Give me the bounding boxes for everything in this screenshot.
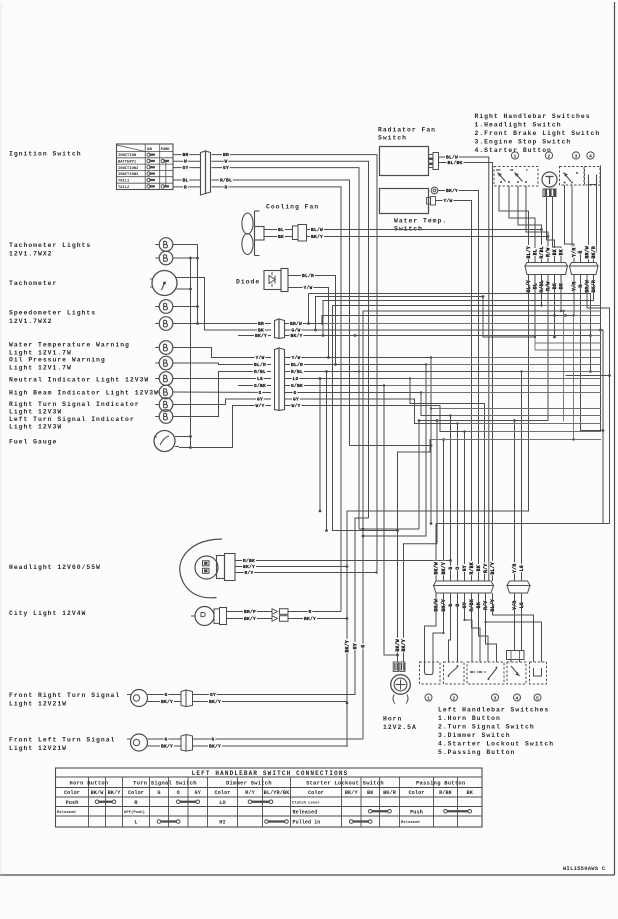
- svg-text:Y/W: Y/W: [443, 198, 452, 204]
- wire labels above connector J8: [571, 245, 597, 259]
- connector J4 (cooling fan): [293, 225, 307, 242]
- bulb L3 speedometer light 1: [155, 300, 173, 314]
- label High Beam Indicator Light: [9, 390, 159, 397]
- wire GY jog (harness): [359, 419, 420, 529]
- connector J3 (water temp switch): [427, 197, 436, 206]
- svg-text:3: 3: [494, 695, 497, 701]
- wire labels 8-pin left: [253, 354, 267, 409]
- svg-text:ON: ON: [510, 169, 514, 172]
- label Left Turn Signal Indicator Light: [9, 416, 135, 431]
- svg-text:BK: BK: [467, 790, 474, 796]
- wire tachometer BK: [180, 278, 271, 331]
- wire row ext y378.5 LG: [410, 378, 601, 380]
- connector J8 (right handlebar 4-pin): [570, 263, 599, 275]
- label Ignition Switch: [9, 151, 82, 158]
- svg-text:Left Turn Signal Indicator: Left Turn Signal Indicator: [9, 416, 135, 423]
- svg-text:R/W: R/W: [546, 248, 552, 257]
- wire labels 3-pin left: [254, 320, 268, 339]
- svg-text:GY: GY: [293, 396, 299, 402]
- connector J13 (starter lockout): [507, 651, 525, 660]
- wire riser x320: [319, 377, 322, 512]
- radiator fan switch SW2: [380, 147, 429, 176]
- wire O (to turn signal switch): [457, 593, 459, 662]
- wire high beam bulb G: [173, 391, 271, 394]
- svg-text:BL/Y: BL/Y: [526, 246, 532, 258]
- wire G/W (3-pin row2): [285, 327, 604, 524]
- connector J9 (right turn signal): [181, 690, 193, 707]
- wire BK/Y (left turn run): [193, 743, 348, 750]
- svg-text:Dimmer Switch: Dimmer Switch: [226, 781, 272, 787]
- wire BK/R (starter run 2): [322, 275, 594, 337]
- wire R/Y (headlight low): [235, 569, 378, 576]
- svg-text:R/Y: R/Y: [245, 790, 255, 796]
- starter lockout switch SW11 (dashed box): [507, 662, 526, 684]
- dimmer switch SW10 (dashed box): [467, 662, 504, 684]
- wire R (main harness right): [581, 275, 605, 432]
- svg-text:2: 2: [548, 153, 551, 159]
- wire row ext y415.5: [449, 414, 601, 416]
- bulb L9 right turn indicator light: [155, 398, 173, 412]
- svg-text:BK/W: BK/W: [91, 790, 105, 796]
- svg-text:BK: BK: [559, 283, 565, 289]
- label Diode: [236, 279, 260, 286]
- water temperature switch SW3: [380, 189, 429, 214]
- wire tach light 2 to bus: [173, 257, 198, 259]
- svg-text:IGNITION: IGNITION: [118, 154, 136, 158]
- diode D1: [264, 269, 288, 292]
- horn button SW8 (dashed box): [420, 662, 441, 684]
- wire label horn BK/W: [395, 638, 401, 653]
- wire R/BL (ignition harness): [212, 177, 350, 446]
- wire row y343: [534, 336, 601, 343]
- svg-text:2.Front Brake Light Switch: 2.Front Brake Light Switch: [475, 130, 601, 137]
- svg-text:R/Y: R/Y: [483, 564, 489, 573]
- label Water Temperature Warning Light: [9, 342, 130, 357]
- svg-text:Headlight 12V60/55W: Headlight 12V60/55W: [9, 564, 101, 571]
- svg-text:Y/W: Y/W: [255, 355, 264, 361]
- svg-text:4.Starter Lockout Switch: 4.Starter Lockout Switch: [438, 741, 554, 748]
- wire right turn bulb GY: [173, 399, 271, 405]
- wire Y/R (stop run): [573, 275, 575, 316]
- svg-text:GY: GY: [223, 165, 229, 171]
- bulb L7 neutral indicator light: [155, 372, 173, 386]
- wire riser x419: [418, 421, 420, 530]
- svg-text:BR/W: BR/W: [585, 246, 591, 258]
- wire lockout pin1: [510, 660, 512, 663]
- wire speedo light 2 to 3-pin row BR: [173, 323, 271, 325]
- svg-text:City Light 12V4W: City Light 12V4W: [9, 610, 86, 617]
- horn H1: [391, 662, 411, 704]
- wire row ext y423.5: [456, 422, 601, 424]
- headlight E1: [180, 539, 235, 598]
- wire R/BL (8-pin row3): [285, 368, 522, 581]
- wire horn drop BK/Y: [404, 544, 438, 662]
- wire Y/W (water temp switch): [436, 197, 472, 581]
- wire BL/R (diode): [288, 272, 337, 366]
- wire BK/Y (right turn): [152, 698, 181, 705]
- svg-text:BK/R: BK/R: [383, 790, 397, 796]
- svg-text:Turn Signal Switch: Turn Signal Switch: [133, 781, 197, 787]
- svg-text:BK: BK: [552, 249, 558, 255]
- svg-text:BK/Y: BK/Y: [290, 333, 302, 339]
- wire row ext y311: [560, 310, 601, 312]
- wire R/W (headlight switch): [526, 186, 548, 263]
- wire row ext y315.5: [572, 314, 601, 316]
- svg-text:Speedometer Lights: Speedometer Lights: [9, 310, 96, 317]
- wire G (left turn): [152, 736, 181, 743]
- svg-text:Released: Released: [57, 810, 76, 815]
- wire row ext y357.5 Y/W: [430, 356, 601, 358]
- connector J11 (left handlebar 9-pin): [434, 581, 494, 593]
- label Front Right Turn Signal: [9, 692, 120, 708]
- front left turn signal E4: [127, 734, 152, 751]
- connector J6 (meter 8-pin): [275, 348, 285, 411]
- wire BL (cooling fan): [264, 226, 293, 233]
- label Fuel Gauge: [9, 439, 57, 446]
- wire tach light 1 to bus: [173, 244, 198, 246]
- svg-text:BK/R: BK/R: [591, 246, 597, 258]
- wire GY (to turn signal switch): [463, 593, 472, 662]
- svg-text:Front Right Turn Signal: Front Right Turn Signal: [9, 692, 120, 699]
- wire GY (ignition harness): [212, 164, 360, 529]
- svg-text:IGNITION2: IGNITION2: [118, 167, 138, 171]
- headlight switch SW4 (dashed box): [494, 167, 538, 187]
- svg-text:Fuel Gauge: Fuel Gauge: [9, 439, 57, 446]
- label Speedometer Lights: [9, 310, 96, 326]
- wire BL/Y (headlight switch): [499, 186, 529, 263]
- wire horn feed BK/W: [398, 438, 445, 662]
- wire BK (brake switch 2): [553, 197, 562, 264]
- svg-text:Push: Push: [410, 809, 423, 815]
- wire row ext y439.5: [430, 439, 601, 441]
- city light E2: [191, 607, 227, 626]
- wire label horn BK/Y: [401, 638, 407, 653]
- svg-text:High Beam Indicator Light 12V3: High Beam Indicator Light 12V3W: [9, 390, 159, 397]
- connector J12 (left handlebar 2-pin): [507, 581, 530, 593]
- connector J2 (radiator fan switch): [429, 153, 439, 170]
- label Oil Pressure Warning Light: [9, 357, 106, 372]
- label Right Turn Signal Indicator Light: [9, 401, 140, 416]
- svg-text:Light 12V1.7W: Light 12V1.7W: [9, 350, 72, 357]
- wire BK/Y (right turn run): [193, 698, 348, 705]
- wire labels above connector J11: [433, 561, 496, 576]
- wire BR/W (starter run): [587, 275, 611, 524]
- svg-text:12V1.7WX2: 12V1.7WX2: [9, 318, 53, 325]
- bulb L4 speedometer light 2: [155, 317, 173, 331]
- svg-text:Neutral Indicator Light 12V3W: Neutral Indicator Light 12V3W: [9, 377, 149, 384]
- bullet connector (city BK/Y): [272, 615, 347, 622]
- wire GY (8-pin row7): [285, 396, 458, 581]
- label Right Handlebar Switches: [475, 113, 601, 154]
- wire Y/R (to lockout): [514, 593, 516, 650]
- label City Light: [9, 610, 86, 617]
- label Tachometer: [9, 280, 57, 287]
- svg-text:Light 12V21W: Light 12V21W: [9, 701, 67, 708]
- wire row y408.5: [430, 407, 601, 409]
- wire G/BK stub: [238, 385, 271, 387]
- svg-text:R/BL: R/BL: [539, 280, 545, 292]
- svg-text:GY: GY: [462, 565, 468, 571]
- svg-text:BL/Y: BL/Y: [526, 280, 532, 292]
- wire Y/W (diode): [288, 284, 330, 359]
- svg-text:BK/Y: BK/Y: [209, 743, 221, 749]
- svg-text:R: R: [184, 184, 187, 190]
- wire fuel gauge W/Y: [179, 406, 271, 449]
- svg-text:BR: BR: [182, 152, 188, 158]
- svg-text:HI: HI: [219, 820, 225, 826]
- svg-text:BK: BK: [278, 234, 284, 240]
- wire row y350: [535, 349, 601, 351]
- wire left turn bulb R/BL: [173, 372, 271, 417]
- svg-text:GY: GY: [353, 643, 359, 649]
- bulb L10 left turn indicator light: [155, 410, 173, 424]
- svg-text:Light 12V21W: Light 12V21W: [9, 745, 67, 752]
- svg-text:LG: LG: [519, 565, 525, 571]
- wire Y/W (8-pin row1): [285, 354, 433, 525]
- svg-text:LG: LG: [292, 376, 298, 382]
- svg-text:R/BK: R/BK: [469, 562, 475, 574]
- node 1 (horn button): [425, 694, 432, 701]
- wire BK (to dimmer): [479, 593, 489, 662]
- svg-text:BK: BK: [476, 565, 482, 571]
- wire ignition BR (switch to connector): [173, 151, 201, 158]
- svg-text:Y/R: Y/R: [572, 248, 578, 257]
- svg-text:LEFT HANDLEBAR SWITCH CONNECTI: LEFT HANDLEBAR SWITCH CONNECTIONS: [192, 770, 349, 777]
- wire G (to turn signal switch): [449, 593, 451, 662]
- svg-text:LO: LO: [219, 800, 225, 806]
- svg-text:4: 4: [516, 695, 519, 701]
- svg-text:Color: Color: [64, 790, 80, 796]
- node 2 (front brake light switch): [545, 152, 552, 160]
- front right turn signal E3: [127, 690, 152, 707]
- svg-text:BL/R: BL/R: [291, 362, 303, 368]
- connector J1 (ignition switch): [201, 151, 211, 195]
- svg-text:G: G: [361, 645, 367, 648]
- wire ignition GY (switch to connector): [173, 164, 201, 171]
- svg-text:1.Headlight Switch: 1.Headlight Switch: [475, 122, 562, 129]
- wire row ext y305.5: [540, 304, 601, 306]
- svg-text:BK: BK: [552, 283, 558, 289]
- label Front Left Turn Signal: [9, 737, 115, 753]
- svg-text:R/BL: R/BL: [539, 246, 545, 258]
- svg-text:Released: Released: [293, 809, 318, 815]
- svg-text:3: 3: [575, 153, 578, 159]
- svg-text:Clutch Lever: Clutch Lever: [292, 800, 320, 805]
- ignition switch SW1 table: [117, 144, 174, 190]
- wire BL/R (8-pin row2): [285, 361, 427, 537]
- svg-text:12V1.7WX2: 12V1.7WX2: [9, 251, 53, 258]
- fuel gauge M3: [154, 431, 179, 452]
- wire ignition W (switch to connector): [173, 158, 201, 165]
- svg-text:Right Handlebar Switches: Right Handlebar Switches: [475, 113, 591, 120]
- wire mesh right edge dots: [589, 334, 592, 373]
- node 3 (engine stop switch): [572, 152, 579, 160]
- wire LG (8-pin row4): [285, 375, 485, 581]
- svg-text:R/BK: R/BK: [439, 790, 453, 796]
- svg-text:IGNITION3: IGNITION3: [118, 173, 139, 177]
- svg-text:LG: LG: [257, 376, 263, 382]
- svg-text:Radiator Fan: Radiator Fan: [378, 127, 436, 134]
- wire BL/BK (radiator fan switch): [439, 159, 493, 581]
- svg-text:BK/Y: BK/Y: [441, 599, 447, 611]
- svg-text:W: W: [184, 159, 187, 165]
- wire BK/Y (water temp switch): [438, 187, 479, 581]
- wire row ext y335.5: [591, 335, 602, 337]
- svg-text:BL: BL: [533, 283, 539, 289]
- table LEFT HANDLEBAR SWITCH CONNECTIONS (frame): [56, 768, 483, 827]
- wire BL/Y (to front harness): [346, 275, 529, 748]
- svg-text:GY: GY: [210, 692, 216, 698]
- wire neutral bulb LG: [173, 378, 271, 380]
- wire BK/Y (3-pin row3): [285, 332, 591, 339]
- svg-text:BL/W: BL/W: [311, 227, 323, 233]
- wire label riser G: [360, 644, 366, 649]
- svg-text:Light 12V3W: Light 12V3W: [9, 409, 62, 416]
- svg-text:R/BL: R/BL: [291, 369, 303, 375]
- wire riser x535 ext: [534, 337, 536, 350]
- wire R/W (brake feed run): [419, 235, 549, 422]
- wire BL/Y (to passing): [493, 593, 534, 662]
- bulb L6 oil pressure warning light: [155, 356, 173, 370]
- wire BK/Y (headlight ground): [235, 563, 347, 570]
- node 4 (starter lockout switch): [514, 694, 521, 701]
- wire BK/Y (left turn): [152, 743, 181, 750]
- svg-text:Right Turn Signal Indicator: Right Turn Signal Indicator: [9, 401, 140, 408]
- terminal ring (water temp BK/Y): [431, 187, 438, 194]
- svg-text:Y/W: Y/W: [291, 355, 300, 361]
- svg-text:BK/Y: BK/Y: [255, 333, 267, 339]
- svg-text:Color: Color: [308, 790, 324, 796]
- wire BL/W (cooling fan feed): [307, 226, 542, 233]
- svg-text:OFF(Push): OFF(Push): [124, 810, 145, 815]
- svg-text:GY: GY: [462, 602, 468, 608]
- svg-text:2.Turn Signal Switch: 2.Turn Signal Switch: [438, 724, 535, 731]
- svg-text:BR/P: BR/P: [244, 609, 256, 615]
- label Left Handlebar Switches: [438, 707, 554, 757]
- svg-text:BR/W: BR/W: [290, 321, 302, 327]
- cooling fan M1: [242, 211, 264, 256]
- svg-text:Released: Released: [401, 820, 420, 825]
- node 2 (turn signal switch): [451, 694, 458, 701]
- bulb L8 high beam indicator light: [155, 385, 173, 399]
- svg-text:TAIL2: TAIL2: [118, 186, 129, 190]
- svg-text:R/BL: R/BL: [254, 369, 266, 375]
- svg-text:BK/Y: BK/Y: [161, 743, 173, 749]
- svg-text:BL/YR/BK: BL/YR/BK: [264, 790, 290, 796]
- svg-text:GY: GY: [195, 790, 202, 796]
- svg-text:Starter Lockout Switch: Starter Lockout Switch: [306, 781, 384, 787]
- bulb L5 water temp warning light: [155, 341, 173, 355]
- svg-text:Light 12V1.7W: Light 12V1.7W: [9, 365, 72, 372]
- svg-text:G/BK: G/BK: [291, 383, 303, 389]
- svg-text:G: G: [448, 604, 454, 607]
- wire BR/P (city light): [227, 608, 273, 615]
- svg-text:ON: ON: [147, 148, 153, 152]
- wire BK (cooling fan): [264, 233, 293, 240]
- svg-text:Y/R: Y/R: [512, 564, 518, 573]
- wire R (ignition harness): [212, 184, 342, 612]
- wire R/BK (headlight high): [235, 557, 451, 564]
- wire BK/Y (city light): [227, 615, 273, 622]
- svg-text:Water Temperature Warning: Water Temperature Warning: [9, 342, 130, 349]
- svg-text:1: 1: [514, 153, 517, 159]
- wire GY feed (right turn): [355, 518, 369, 695]
- svg-text:4: 4: [589, 153, 592, 159]
- svg-text:BK/Y: BK/Y: [311, 234, 323, 240]
- svg-text:BK/Y: BK/Y: [304, 616, 316, 622]
- svg-text:BK/Y: BK/Y: [345, 640, 351, 652]
- svg-text:12V2.5A: 12V2.5A: [383, 724, 417, 731]
- node 1 (headlight switch): [511, 152, 518, 160]
- svg-text:BL/BK: BL/BK: [447, 160, 462, 166]
- svg-text:BK/Y: BK/Y: [244, 616, 256, 622]
- svg-text:1: 1: [427, 695, 430, 701]
- label Tachometer Lights: [9, 242, 91, 258]
- svg-text:W: W: [224, 159, 227, 165]
- svg-text:GY: GY: [182, 165, 188, 171]
- svg-text:R: R: [578, 285, 584, 288]
- svg-text:L: L: [134, 820, 137, 826]
- wire BR (ignition harness): [212, 151, 378, 572]
- svg-text:BK/W: BK/W: [434, 562, 440, 574]
- wire BK (engine stop run): [362, 275, 561, 740]
- svg-text:BK/Y: BK/Y: [108, 790, 122, 796]
- svg-text:Cooling Fan: Cooling Fan: [266, 204, 319, 211]
- wire GY (right turn run): [193, 691, 356, 698]
- wire row ext y364.5 BL/R: [425, 363, 601, 365]
- svg-text:2: 2: [453, 695, 456, 701]
- wire G/BK (8-pin row5): [285, 382, 399, 656]
- svg-text:BR: BR: [223, 152, 229, 158]
- wire mesh vertical A: [307, 294, 310, 325]
- wire BL (headlight low beam run): [314, 275, 535, 338]
- wire R/BK (to dimmer): [472, 593, 481, 662]
- wire Y/W jog (meter to harness): [350, 445, 432, 447]
- wire R/BL (to taillight run): [333, 228, 543, 532]
- svg-text:BL: BL: [533, 249, 539, 255]
- wire BK/R (starter button): [594, 185, 597, 263]
- wire labels above connector J12: [512, 562, 525, 573]
- wire riser pin BK/Y left-handlebar: [443, 440, 445, 582]
- svg-text:R/BL: R/BL: [220, 177, 232, 183]
- wire BR/W (3-pin row1): [285, 314, 574, 327]
- wire row ext y431.5: [463, 430, 601, 432]
- svg-text:Y/R: Y/R: [512, 601, 518, 610]
- svg-text:R/W: R/W: [546, 282, 552, 291]
- svg-text:BR/W: BR/W: [585, 280, 591, 292]
- wire riser x573.5 ext: [572, 316, 574, 441]
- svg-text:BK/Y: BK/Y: [209, 699, 221, 705]
- wire label riser GY: [352, 642, 358, 650]
- wire Y/R (engine stop): [565, 185, 575, 263]
- wire labels below connector J7: [526, 279, 565, 294]
- svg-text:BK/Y: BK/Y: [161, 699, 173, 705]
- svg-text:Push: Push: [66, 800, 79, 806]
- label Water Temp. Switch: [394, 218, 447, 233]
- wire W/Y (8-pin row8): [285, 402, 465, 581]
- svg-text:Oil Pressure Warning: Oil Pressure Warning: [9, 357, 106, 364]
- connector J5 (meter 3-pin): [275, 319, 285, 339]
- wire labels above connector J7: [526, 245, 565, 259]
- svg-text:G: G: [211, 736, 214, 742]
- wire BK/Y (cooling fan ground): [307, 233, 549, 240]
- label Horn: [383, 716, 417, 732]
- wire labels below connector J11: [433, 598, 496, 613]
- svg-text:BK: BK: [559, 249, 565, 255]
- svg-text:R/BK: R/BK: [469, 599, 475, 611]
- wire BK (brake switch 1): [547, 197, 555, 264]
- svg-text:W/Y: W/Y: [291, 403, 300, 409]
